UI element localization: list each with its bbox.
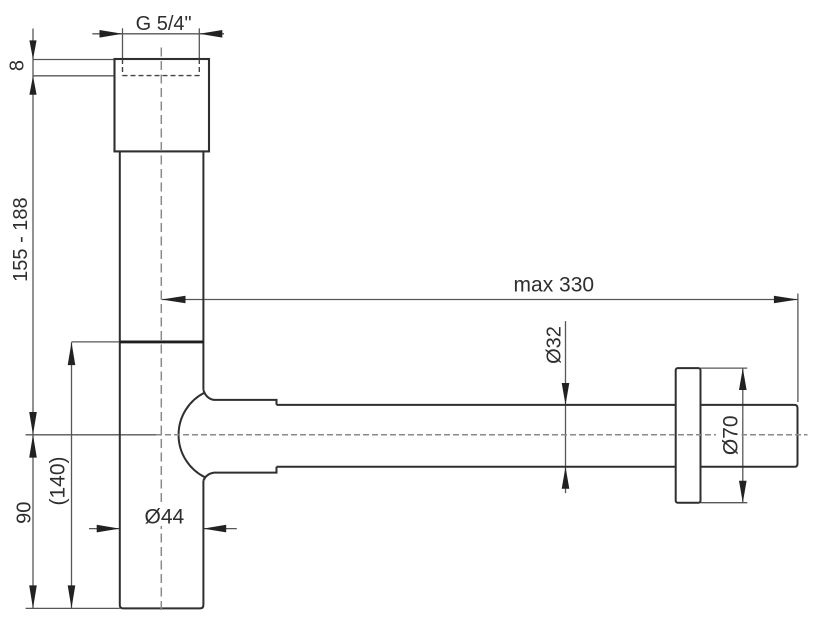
- outlet bell mouth arc: [179, 393, 205, 478]
- separation line on trap body: [120, 340, 204, 343]
- arrow 140 upper end: [68, 342, 76, 365]
- white underlay for diameter 70 label: [716, 412, 742, 459]
- arrow G 5/4 right: [199, 30, 222, 38]
- svg-text:90: 90: [14, 502, 36, 524]
- svg-text:Ø70: Ø70: [720, 415, 743, 455]
- dimension line max 330: [162, 299, 798, 301]
- thread dashed line right: [198, 59, 200, 76]
- arrow 32 top: [562, 383, 570, 405]
- dimension line 44 right part: [203, 528, 237, 530]
- dimension line 155-188 / 8 / 90 vertical: [32, 29, 34, 609]
- extension line wall end max 330: [797, 294, 799, 403]
- horizontal centerline axis: [156, 434, 808, 436]
- nut body: [115, 59, 210, 151]
- dimension line 32 vertical: [565, 321, 567, 493]
- svg-text:Ø32: Ø32: [543, 326, 565, 364]
- wall flange: [676, 368, 701, 503]
- arrow 70 top: [739, 368, 747, 390]
- arrow 70 bottom: [739, 481, 747, 503]
- outlet bell white mask: [179, 390, 277, 481]
- svg-text:Ø44: Ø44: [145, 506, 185, 529]
- extension line right of G 5/4: [198, 28, 200, 59]
- svg-text:(140): (140): [46, 456, 69, 505]
- arrow 90 upper end: [29, 435, 37, 458]
- svg-text:max 330: max 330: [514, 274, 595, 297]
- extension line flange top: [701, 367, 748, 369]
- extension line left of G 5/4: [122, 28, 124, 59]
- thread dashed line bottom: [123, 75, 200, 77]
- extension line separation level: [72, 341, 120, 343]
- extension line axis level: [26, 434, 156, 436]
- dimension line G 5/4: [92, 33, 224, 35]
- svg-text:8: 8: [7, 60, 29, 71]
- arrow max 330 right: [774, 296, 798, 304]
- arrow 90 lower end: [29, 585, 37, 608]
- white underlay for diameter 44 label: [142, 504, 187, 526]
- svg-text:155 - 188: 155 - 188: [10, 197, 32, 282]
- arrow max 330 left: [162, 296, 186, 304]
- trap vertical tube left edge and cup bottom: [120, 151, 204, 608]
- arrow 44 left: [97, 525, 120, 533]
- arrow 140 lower end: [68, 585, 76, 608]
- dimension line 70 vertical: [742, 368, 744, 503]
- extension line bottom level: [26, 607, 120, 609]
- vertical centerline axis: [160, 48, 162, 612]
- outlet bell collar bottom: [203, 467, 276, 481]
- arrow dim 8 bottom: [29, 76, 36, 95]
- arrow G 5/4 left: [100, 30, 123, 38]
- arrow dim 8 top: [29, 40, 36, 59]
- extension line nut top to dim 8: [33, 59, 115, 61]
- outlet bell collar top: [203, 390, 276, 405]
- dimension line 44 left part: [89, 528, 120, 530]
- extension line thread seat to dim 8: [33, 75, 115, 77]
- svg-text:G 5/4": G 5/4": [136, 13, 192, 35]
- thread dashed line left: [122, 59, 124, 76]
- arrow 155-188 lower end: [29, 412, 37, 435]
- extension line flange bottom: [701, 502, 748, 504]
- dimension line (140) vertical: [71, 342, 73, 608]
- arrow 32 bottom: [562, 467, 570, 489]
- outlet tube: [277, 405, 798, 467]
- arrow 44 right: [203, 525, 226, 533]
- trap vertical tube right edge upper part: [202, 151, 204, 390]
